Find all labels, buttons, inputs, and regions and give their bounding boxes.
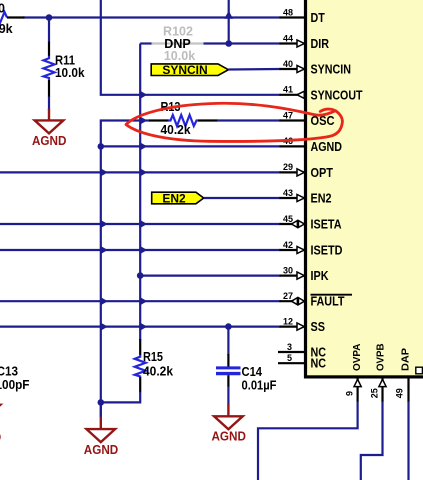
svg-text:FAULT: FAULT	[311, 294, 345, 309]
wire OSC row y=120.5 with elbow down to AGND row	[101, 121, 150, 147]
freehand red stroke flick at right end	[320, 109, 333, 111]
net label flag EN2	[152, 192, 204, 204]
ground AGND under C14	[227, 404, 229, 416]
ground AGND cut off at left edge	[0, 405, 1, 418]
svg-text:45: 45	[283, 214, 293, 224]
svg-text:100pF: 100pF	[0, 378, 30, 392]
svg-text:3: 3	[287, 342, 292, 352]
junction arrow right at OPT/V2 crossing	[139, 168, 147, 177]
node junction IPK row / V2	[137, 272, 144, 279]
svg-text:40.2k: 40.2k	[161, 123, 191, 137]
svg-text:SYNCIN: SYNCIN	[162, 63, 207, 77]
svg-text:4.99k: 4.99k	[0, 22, 13, 36]
wire DT row y=17.5	[23, 16, 281, 18]
pin 5 NC stub	[278, 362, 304, 364]
svg-text:EN2: EN2	[311, 191, 332, 206]
svg-text:OVPA: OVPA	[352, 344, 363, 372]
junction arrow right at FAULT/V2 crossing	[139, 297, 147, 306]
wire SS row y=326.6	[0, 326, 281, 328]
svg-text:48: 48	[283, 7, 293, 17]
svg-text:30: 30	[283, 265, 293, 275]
wire OPT row y=172.4	[0, 171, 281, 173]
svg-text:SS: SS	[311, 319, 326, 334]
wire AGND row y=146.4	[101, 145, 281, 147]
pin 3 NC stub	[278, 351, 304, 353]
resistor R15 40.2k vertical	[139, 339, 141, 355]
junction arrow right at AGND/V2 crossing	[139, 142, 147, 151]
svg-text:AGND: AGND	[32, 133, 67, 148]
svg-text:42: 42	[283, 240, 293, 250]
svg-text:43: 43	[283, 188, 293, 198]
junction arrow right at FAULT/V1 crossing	[100, 297, 108, 306]
pin 40 SYNCIN stub	[280, 68, 305, 70]
pin 46 AGND stub	[280, 145, 305, 147]
svg-text:OVPB: OVPB	[376, 344, 387, 372]
svg-text:40: 40	[283, 59, 293, 69]
svg-text:AGND: AGND	[84, 442, 119, 457]
node junction SS row / C14	[225, 323, 232, 330]
pin 9 OVPA bottom stub	[357, 379, 359, 403]
svg-text:SYNCIN: SYNCIN	[311, 62, 352, 77]
wire FAULT row y=301.2	[0, 300, 281, 302]
wire DIR row y=43.5 with resistor R102 DNP	[140, 42, 152, 44]
svg-text:DT: DT	[311, 10, 325, 25]
wire ISETD row y=250	[0, 249, 281, 251]
pin 49 DAP bottom stub	[407, 379, 409, 403]
node junction V1 / R15 bottom	[98, 399, 105, 406]
junction arrow right at SYNCOUT/V2 crossing	[139, 90, 147, 99]
vertical wire V3 from top to DIR row	[228, 0, 230, 44]
junction arrow right at ISETD/V1 crossing	[100, 246, 108, 255]
svg-text:27: 27	[283, 291, 293, 301]
pin 27 FAULT stub (active low)	[280, 300, 305, 302]
junction arrow right at ISETD/V2 crossing	[139, 246, 147, 255]
svg-text:40.2k: 40.2k	[143, 364, 173, 378]
pin square marker at right edge	[416, 367, 423, 374]
svg-text:25: 25	[370, 388, 380, 398]
svg-text:R15: R15	[143, 350, 163, 364]
junction arrow right at SS/V1 crossing	[100, 322, 108, 331]
op-amp U1 IC body (pale yellow, cut off at top and right)	[306, 0, 423, 377]
node junction V3/DIR	[225, 40, 232, 47]
svg-text:9: 9	[345, 391, 355, 396]
vertical wire V1 lower (AGND bus down to bottom ground)	[100, 146, 102, 417]
vertical wire V2 from DIR row down to R15	[139, 44, 141, 341]
svg-text:C13: C13	[0, 364, 18, 378]
wire OVPA	[258, 402, 358, 480]
pin 47 OSC stub	[280, 119, 305, 121]
wire OVPB	[361, 402, 383, 480]
ground AGND under R11	[48, 109, 50, 120]
svg-text:C14: C14	[242, 365, 263, 379]
svg-text:29: 29	[283, 162, 293, 172]
junction arrow right at ISETA/V2 crossing	[139, 220, 147, 229]
svg-text:10.0k: 10.0k	[164, 49, 195, 63]
pin 43 EN2 stub	[280, 197, 305, 199]
junction arrow right at SS/V2 crossing	[139, 322, 147, 331]
svg-text:47: 47	[283, 110, 293, 120]
vertical wire V1 top (to SYNCOUT)	[101, 0, 281, 95]
freehand red circle annotation around R13/OSC	[126, 103, 342, 141]
svg-text:IPK: IPK	[311, 268, 330, 283]
svg-text:ISETA: ISETA	[311, 217, 342, 232]
junction arrow right at OPT/V1 crossing	[100, 168, 108, 177]
wire DAP	[407, 402, 409, 480]
svg-text:AGND: AGND	[211, 428, 246, 443]
svg-text:49: 49	[395, 388, 405, 398]
pin 30 IPK stub	[280, 275, 305, 277]
svg-text:44: 44	[283, 33, 293, 43]
svg-text:R10: R10	[0, 1, 5, 15]
node junction R11 top	[46, 14, 53, 21]
svg-text:EN2: EN2	[162, 192, 186, 206]
svg-text:AGND: AGND	[311, 139, 343, 154]
svg-text:0.01µF: 0.01µF	[242, 378, 277, 392]
junction arrow right at ISETA/V1 crossing	[100, 220, 108, 229]
svg-text:DIR: DIR	[311, 36, 330, 51]
capacitor C14 0.01uF	[227, 327, 229, 355]
wire SYNCIN row	[228, 68, 280, 71]
node junction AGND row / V1	[98, 143, 105, 150]
junction arrow right at OSC/V2 crossing	[139, 116, 147, 125]
resistor R13 40.2k horizontal	[149, 119, 169, 121]
wire EN2 row	[204, 197, 281, 199]
svg-text:DAP: DAP	[401, 348, 412, 371]
svg-text:OPT: OPT	[311, 165, 334, 180]
wire ISETA row y=224	[0, 223, 281, 225]
pin 45 ISETA stub	[280, 223, 305, 225]
svg-text:ISETD: ISETD	[311, 243, 343, 258]
pin 44 DIR stub	[280, 42, 305, 44]
svg-text:12: 12	[283, 316, 293, 326]
svg-text:AGND: AGND	[0, 430, 1, 445]
wire IPK row y=275.6	[140, 275, 280, 277]
pin 29 OPT stub	[280, 171, 305, 173]
ground AGND bottom of V1	[100, 402, 102, 417]
net label flag SYNCIN	[151, 64, 228, 76]
pin 25 OVPB bottom stub	[381, 379, 383, 403]
svg-text:5: 5	[287, 353, 292, 363]
resistor R11 10.0k vertical	[48, 18, 50, 43]
junction arrow up at DT/V3 crossing	[224, 11, 233, 19]
pin 12 SS stub	[280, 326, 305, 328]
svg-text:NC: NC	[311, 356, 327, 371]
resistor R10 (cut off at left edge, body fragment)	[0, 12, 7, 23]
pin 48 DT stub	[280, 16, 305, 18]
svg-text:41: 41	[283, 85, 293, 95]
pin 41 SYNCOUT stub	[280, 94, 305, 96]
svg-text:10.0k: 10.0k	[55, 66, 85, 80]
svg-text:SYNCOUT: SYNCOUT	[311, 87, 363, 102]
pin 42 ISETD stub	[280, 249, 305, 251]
